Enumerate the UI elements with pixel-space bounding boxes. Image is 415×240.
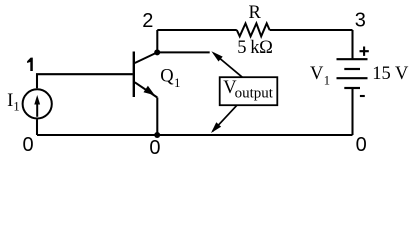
svg-text:5 kΩ: 5 kΩ bbox=[237, 38, 272, 58]
svg-text:R: R bbox=[249, 3, 262, 23]
svg-text:0: 0 bbox=[356, 134, 367, 156]
svg-text:V: V bbox=[310, 64, 324, 84]
svg-text:1: 1 bbox=[324, 73, 330, 87]
svg-text:0: 0 bbox=[22, 134, 33, 156]
svg-text:2: 2 bbox=[142, 10, 153, 32]
svg-text:1: 1 bbox=[174, 76, 180, 90]
svg-text:I: I bbox=[7, 91, 13, 111]
svg-text:3: 3 bbox=[355, 9, 366, 31]
svg-text:1: 1 bbox=[13, 99, 19, 113]
svg-text:0: 0 bbox=[149, 137, 160, 159]
svg-text:Q: Q bbox=[160, 67, 174, 87]
svg-text:output: output bbox=[235, 86, 274, 102]
svg-text:15 V: 15 V bbox=[372, 64, 409, 84]
